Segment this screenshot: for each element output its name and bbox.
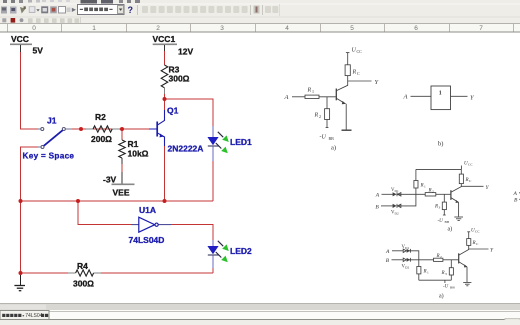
- svg-text:A: A: [513, 191, 518, 197]
- wire VCC1 to R3: [164, 51, 166, 65]
- svg-text:1: 1: [312, 89, 314, 94]
- power VCC1: [153, 34, 194, 57]
- svg-text:D1: D1: [395, 189, 399, 193]
- svg-text:A: A: [284, 94, 289, 101]
- svg-text:R4: R4: [77, 261, 88, 271]
- fig-c diode VD1: [393, 192, 397, 196]
- power VEE -3V: [103, 175, 135, 198]
- svg-text:R: R: [420, 184, 424, 189]
- junction: ground / R4 node: [19, 271, 23, 275]
- svg-text:VEE: VEE: [113, 188, 130, 198]
- svg-text:R: R: [465, 178, 469, 183]
- svg-text:-U: -U: [320, 135, 327, 141]
- svg-text:-U: -U: [443, 285, 449, 290]
- svg-text:5V: 5V: [33, 46, 44, 56]
- svg-text:200Ω: 200Ω: [91, 134, 112, 144]
- svg-text:J1: J1: [47, 116, 57, 126]
- svg-text:R: R: [441, 271, 445, 276]
- svg-text:2: 2: [432, 189, 434, 193]
- svg-text:74LS04: 74LS04: [25, 313, 42, 319]
- svg-text:Q1: Q1: [167, 106, 179, 116]
- svg-text:D1: D1: [405, 246, 409, 250]
- fig-d resistor R1: [417, 267, 421, 274]
- svg-text:R: R: [428, 188, 432, 193]
- ruler strip: [0, 24, 520, 33]
- fig-a transistor: [335, 89, 337, 101]
- fig-a wire RC to collector node: [347, 76, 349, 81]
- svg-text:R2: R2: [95, 112, 106, 122]
- fig-a resistor R1: [305, 95, 319, 98]
- resistor R2: [86, 112, 119, 144]
- fig-c transistor: [450, 190, 452, 200]
- fig-d wire B to base through R2: [408, 259, 434, 261]
- wire bus to inverter input: [78, 201, 131, 225]
- toolbar background: [0, 0, 520, 24]
- svg-text:R: R: [314, 113, 319, 119]
- resistor R3: [161, 65, 189, 88]
- svg-text:2: 2: [440, 255, 442, 259]
- junction: R2 / R1 / Q1 base node: [120, 127, 124, 131]
- fig-c Ucc terminal: [460, 166, 462, 170]
- svg-text:R: R: [423, 270, 427, 275]
- fig-d resistor RC: [467, 239, 471, 246]
- svg-text:12V: 12V: [178, 47, 193, 57]
- fig-a node base, wire down to R2: [326, 97, 328, 109]
- svg-text:?: ?: [128, 5, 134, 15]
- svg-text:1: 1: [439, 91, 442, 97]
- wire VCC rail down to switch: [21, 52, 39, 129]
- fig-c wire B up to node: [397, 194, 416, 206]
- svg-text:3: 3: [439, 205, 441, 209]
- fig-a wire R2 to -Ubb: [326, 120, 328, 128]
- svg-text:3: 3: [445, 272, 447, 276]
- svg-text:a): a): [439, 292, 444, 299]
- svg-text:Key = Space: Key = Space: [23, 152, 75, 161]
- svg-text:2: 2: [319, 114, 321, 119]
- svg-text:10kΩ: 10kΩ: [128, 149, 149, 159]
- fig-d diode VD2: [403, 258, 406, 261]
- power VCC: [10, 34, 43, 56]
- svg-text:0: 0: [32, 25, 36, 32]
- svg-text:2: 2: [156, 25, 160, 32]
- svg-text:a): a): [331, 145, 336, 152]
- svg-text:1: 1: [424, 185, 426, 189]
- svg-text:LED1: LED1: [230, 137, 252, 147]
- bottom scroll band: [0, 304, 520, 325]
- fig-a resistor RC: [347, 53, 349, 65]
- fig-a resistor R2: [325, 109, 330, 120]
- wire LED1 to bus: [212, 161, 214, 201]
- fig-d diode VD1: [403, 249, 406, 252]
- svg-text:BB: BB: [450, 286, 455, 290]
- svg-text:CC: CC: [475, 230, 480, 234]
- svg-text:7: 7: [479, 25, 483, 32]
- svg-text:BB: BB: [445, 220, 450, 224]
- fig-c resistor R3: [443, 194, 445, 202]
- fig-b output Y: [451, 95, 468, 97]
- resistor R1: [119, 139, 149, 159]
- fig-d transistor: [458, 253, 460, 263]
- toolbar row2 icons: [1, 6, 76, 13]
- wire R3 to collector node: [164, 88, 166, 94]
- fig-d bottom rail: [419, 279, 452, 281]
- fig-a wire A to R1: [292, 96, 305, 98]
- junction: R3 / Q1 collector / LED1 node: [163, 97, 167, 101]
- fig-a emitter to ground: [345, 104, 347, 130]
- resistor R4: [68, 261, 101, 289]
- svg-text:-3V: -3V: [103, 175, 117, 185]
- svg-text:D2: D2: [395, 212, 399, 216]
- fig-c resistor R1: [415, 169, 417, 180]
- svg-text:U1A: U1A: [139, 205, 156, 215]
- svg-text:b): b): [438, 141, 443, 148]
- svg-text:VCC1: VCC1: [153, 34, 176, 44]
- svg-text:R1: R1: [128, 139, 139, 149]
- ground symbol: [14, 275, 25, 291]
- svg-text:3: 3: [220, 25, 224, 32]
- wire ground rail to R4 to LED2: [21, 272, 214, 274]
- svg-text:A: A: [385, 249, 390, 255]
- wire LED2 to R4 net: [212, 268, 214, 273]
- svg-text:R: R: [472, 241, 476, 246]
- fig-c emitter ground: [458, 202, 460, 216]
- svg-text:LED2: LED2: [230, 246, 252, 256]
- toolbar row3: [0, 17, 520, 18]
- diode LED2: [207, 240, 252, 268]
- junction: bus to inverter input: [76, 199, 80, 203]
- grayed icon strip: [142, 6, 248, 13]
- fig-d output Y: [469, 248, 489, 250]
- fig-c output Y: [461, 185, 483, 187]
- svg-text:R: R: [307, 88, 312, 94]
- fig-c resistor RC: [459, 174, 463, 184]
- wire collector node to LED1: [165, 99, 214, 126]
- svg-text:BB: BB: [329, 136, 335, 141]
- fig-c wire diode to base through R2: [397, 193, 425, 195]
- wire R1 to VEE: [121, 158, 123, 184]
- svg-text:R: R: [436, 254, 440, 259]
- svg-text:A: A: [403, 93, 408, 100]
- in-use combo box: [78, 5, 125, 15]
- svg-text:300Ω: 300Ω: [169, 74, 190, 84]
- inverter gate U1A 74LS04D: [129, 205, 172, 245]
- svg-text:1: 1: [427, 271, 429, 275]
- junction: left rail at bus net: [19, 199, 23, 203]
- diode LED1: [207, 126, 252, 161]
- wire switch to R2 to Q1 base: [72, 128, 149, 130]
- svg-text:C: C: [357, 71, 360, 76]
- wire bus net0 horizontal: [21, 200, 214, 202]
- svg-text:VCC: VCC: [11, 34, 29, 44]
- wire emitter branch: [164, 146, 166, 201]
- svg-text:A: A: [375, 193, 380, 199]
- fig-d resistor R3: [450, 260, 452, 268]
- svg-text:R: R: [434, 204, 438, 209]
- junction: Q1 emitter at bus net: [163, 199, 167, 203]
- svg-text:R: R: [352, 70, 357, 76]
- transistor Q1: [149, 110, 165, 146]
- sheet tab: [0, 311, 49, 320]
- svg-text:a): a): [448, 225, 453, 232]
- wire inverter output to LED2: [171, 225, 213, 240]
- wire switch bottom to ground rail: [21, 147, 39, 273]
- fig-b logic box: [431, 86, 451, 110]
- svg-text:CC: CC: [357, 49, 363, 54]
- fig-d wire A corner down: [408, 251, 419, 267]
- svg-text:6: 6: [414, 25, 418, 32]
- svg-text:2N2222A: 2N2222A: [168, 144, 204, 154]
- junction: switch J1 to R2 node: [79, 127, 83, 131]
- fig-a wire R1 to base: [319, 96, 336, 98]
- svg-text:4: 4: [285, 25, 289, 32]
- svg-text:74LS04D: 74LS04D: [129, 235, 165, 245]
- svg-text:5: 5: [350, 25, 354, 32]
- svg-text:D2: D2: [405, 265, 409, 269]
- switch J1: [23, 116, 75, 161]
- svg-text:CC: CC: [468, 163, 473, 167]
- fig-c top rail: [416, 168, 462, 170]
- svg-text:300Ω: 300Ω: [73, 279, 94, 289]
- fig-a output Y: [348, 80, 372, 82]
- wire R1 branch: [121, 129, 123, 140]
- fig-c diode VD2: [393, 204, 397, 208]
- fig-d emitter ground: [466, 267, 468, 282]
- svg-text:-U: -U: [438, 219, 444, 224]
- toolbar row1 clipped icons: [3, 0, 7, 3]
- svg-text:1: 1: [92, 25, 96, 32]
- tab text: [2, 313, 48, 319]
